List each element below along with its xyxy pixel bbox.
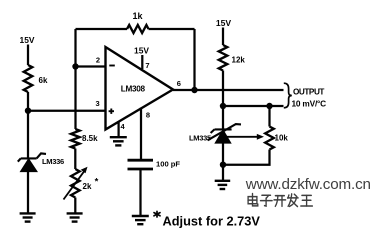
- wire: cap to ground: [139, 169, 141, 216]
- svg-text:LM335: LM335: [189, 134, 211, 143]
- wire: LM335 anode down: [222, 143, 224, 182]
- junction node D: [266, 103, 272, 109]
- svg-text:7: 7: [145, 61, 149, 70]
- wire: pin 2 node to inverting input: [76, 65, 106, 67]
- ground (LM335): [215, 181, 231, 189]
- svg-text:2k: 2k: [83, 182, 92, 191]
- op-amp V+ pin 7 wire: [141, 55, 143, 69]
- svg-text:LM308: LM308: [121, 84, 146, 93]
- svg-text:3: 3: [96, 99, 100, 108]
- wire: 10k bottom to LM335 anode: [223, 150, 270, 165]
- svg-text:12k: 12k: [232, 56, 246, 65]
- svg-text:15V: 15V: [134, 46, 149, 56]
- svg-text:4: 4: [121, 122, 126, 131]
- wire: op-amp output line to OUTPUT terminal: [173, 89, 284, 91]
- wire: 6k to node A: [27, 92, 29, 111]
- wire: feedback top line with 1k: [76, 28, 128, 30]
- svg-text:Adjust for 2.73V: Adjust for 2.73V: [163, 213, 261, 228]
- wire: feedback left drop to pin 2 node: [74, 29, 76, 67]
- resistor R 12k: [219, 45, 228, 71]
- wire: +15V to 12k: [222, 28, 224, 46]
- 10k wiper arrow to LM335 adjust: [226, 136, 257, 138]
- capacitor C 100pF: [128, 159, 154, 162]
- zener reference LM336: [18, 153, 46, 161]
- resistor R 1k (feedback): [127, 25, 149, 33]
- ground (100pF): [132, 216, 149, 224]
- svg-text:15V: 15V: [216, 18, 232, 28]
- wire: 12k down to LM335 node (crosses output line, no connection): [222, 71, 224, 130]
- footnote asterisk (drawn): [154, 211, 160, 217]
- resistor R 8.5k: [71, 129, 80, 149]
- resistor R 6k: [24, 65, 33, 92]
- wire: LM335 node to lower output terminal: [223, 105, 284, 107]
- svg-text:LM336: LM336: [42, 157, 64, 166]
- svg-text:*: *: [95, 176, 99, 187]
- op-amp U1 LM308 triangle: [106, 47, 174, 130]
- op-amp pin 4 wire: [117, 122, 119, 137]
- op-amp pin 8 wire to compensation cap: [140, 108, 142, 161]
- svg-text:1k: 1k: [132, 11, 143, 21]
- wire: LM336 anode to ground: [27, 171, 29, 214]
- svg-text:10 mV/°C: 10 mV/°C: [292, 98, 327, 108]
- svg-text:100 pF: 100 pF: [156, 159, 180, 168]
- junction node C: [220, 103, 226, 109]
- wire: node A down to LM336 cathode: [27, 111, 29, 158]
- wire: pin2 node down to 8.5k: [74, 67, 76, 130]
- junction node B: [72, 63, 78, 69]
- output brace: [284, 83, 292, 108]
- svg-text:2: 2: [96, 55, 100, 64]
- wire: non-inverting input line (node A to pin 3): [28, 110, 106, 112]
- svg-text:6k: 6k: [39, 76, 48, 85]
- junction node E: [220, 162, 226, 168]
- potentiometer R 10k: [265, 127, 274, 150]
- svg-text:8: 8: [146, 110, 150, 119]
- svg-text:8.5k: 8.5k: [82, 134, 98, 143]
- svg-text:15V: 15V: [20, 35, 35, 45]
- junction node A: [25, 108, 31, 114]
- svg-text:www.dzkfw.com.cn: www.dzkfw.com.cn: [245, 176, 371, 193]
- potentiometer R 2k (trim): [71, 169, 80, 198]
- wire: +15V rail to 6k (left column): [27, 45, 29, 66]
- op-amp plus sign: [109, 110, 114, 112]
- wire: 2k to ground: [74, 198, 76, 214]
- ground (2k pot): [67, 213, 83, 221]
- junction node OUT: [191, 87, 197, 93]
- wire: 8.5k to 2k pot: [74, 149, 76, 170]
- ground (pin 4): [110, 137, 127, 145]
- 2k pot adjust arrow: [64, 171, 85, 200]
- op-amp minus sign: [109, 65, 115, 67]
- watermark CJK 电子开发王 (drawn strokes): [248, 194, 312, 207]
- wire: feedback right drop to output node: [193, 29, 195, 90]
- svg-text:6: 6: [177, 79, 181, 88]
- ground (LM336): [20, 213, 36, 221]
- wire: 10k top drop: [268, 106, 270, 127]
- svg-text:10k: 10k: [275, 134, 289, 143]
- svg-text:OUTPUT: OUTPUT: [293, 87, 324, 96]
- temperature sensor LM335 (zener w/ adjust arrow): [208, 124, 242, 140]
